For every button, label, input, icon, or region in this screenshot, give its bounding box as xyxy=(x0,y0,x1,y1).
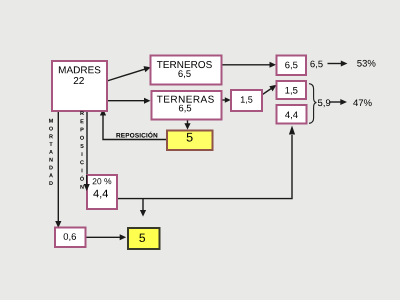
wire MADRES down to 20% box xyxy=(86,111,88,176)
box TERNERAS xyxy=(152,91,222,120)
label mortandad vertical xyxy=(49,119,53,185)
wire 0,6 to yellow 5 bottom xyxy=(86,234,127,240)
wire MADRES to TERNEROS xyxy=(107,66,151,81)
wire TERNEROS to box 6,5 xyxy=(222,62,277,68)
wire 6,5 to 53% xyxy=(328,61,348,67)
wire TERNERAS down to yellow 5 xyxy=(184,120,190,130)
label reposicion vertical xyxy=(80,111,84,189)
box yellow 5 bottom xyxy=(128,228,160,249)
box TERNEROS xyxy=(151,56,222,85)
wire TERNERAS to box 1,5 mid xyxy=(222,97,231,103)
box 6,5 right xyxy=(277,56,307,76)
box yellow 5 reposicion xyxy=(167,131,213,151)
wire reposicion: yellow 5 back to MADRES xyxy=(100,109,167,140)
box MADRES xyxy=(52,61,107,111)
wire 20% box to 4,4 right box (long path) xyxy=(117,126,295,199)
wire arrowhead into 20% box xyxy=(84,175,90,191)
wire MADRES to TERNERAS xyxy=(107,98,151,104)
label 5,9 xyxy=(318,99,330,107)
box 20% 4,4 xyxy=(87,175,117,209)
wire mortandad: MADRES down to 0,6 xyxy=(55,111,61,228)
box 1,5 right xyxy=(277,81,307,99)
box 0,6 xyxy=(55,228,86,248)
box 1,5 mid xyxy=(231,90,262,111)
wire branch down to yellow 5 bottom xyxy=(140,199,146,217)
wire box 1,5 mid to box 1,5 right xyxy=(262,85,277,95)
wire 5,9 to 47% xyxy=(330,99,347,105)
brace right xyxy=(309,84,316,124)
label 53% xyxy=(357,60,375,67)
label 6,5 right of box xyxy=(310,61,322,69)
label 47% xyxy=(353,99,372,106)
label REPOSICION horizontal xyxy=(116,132,157,138)
box 4,4 right xyxy=(277,105,307,124)
